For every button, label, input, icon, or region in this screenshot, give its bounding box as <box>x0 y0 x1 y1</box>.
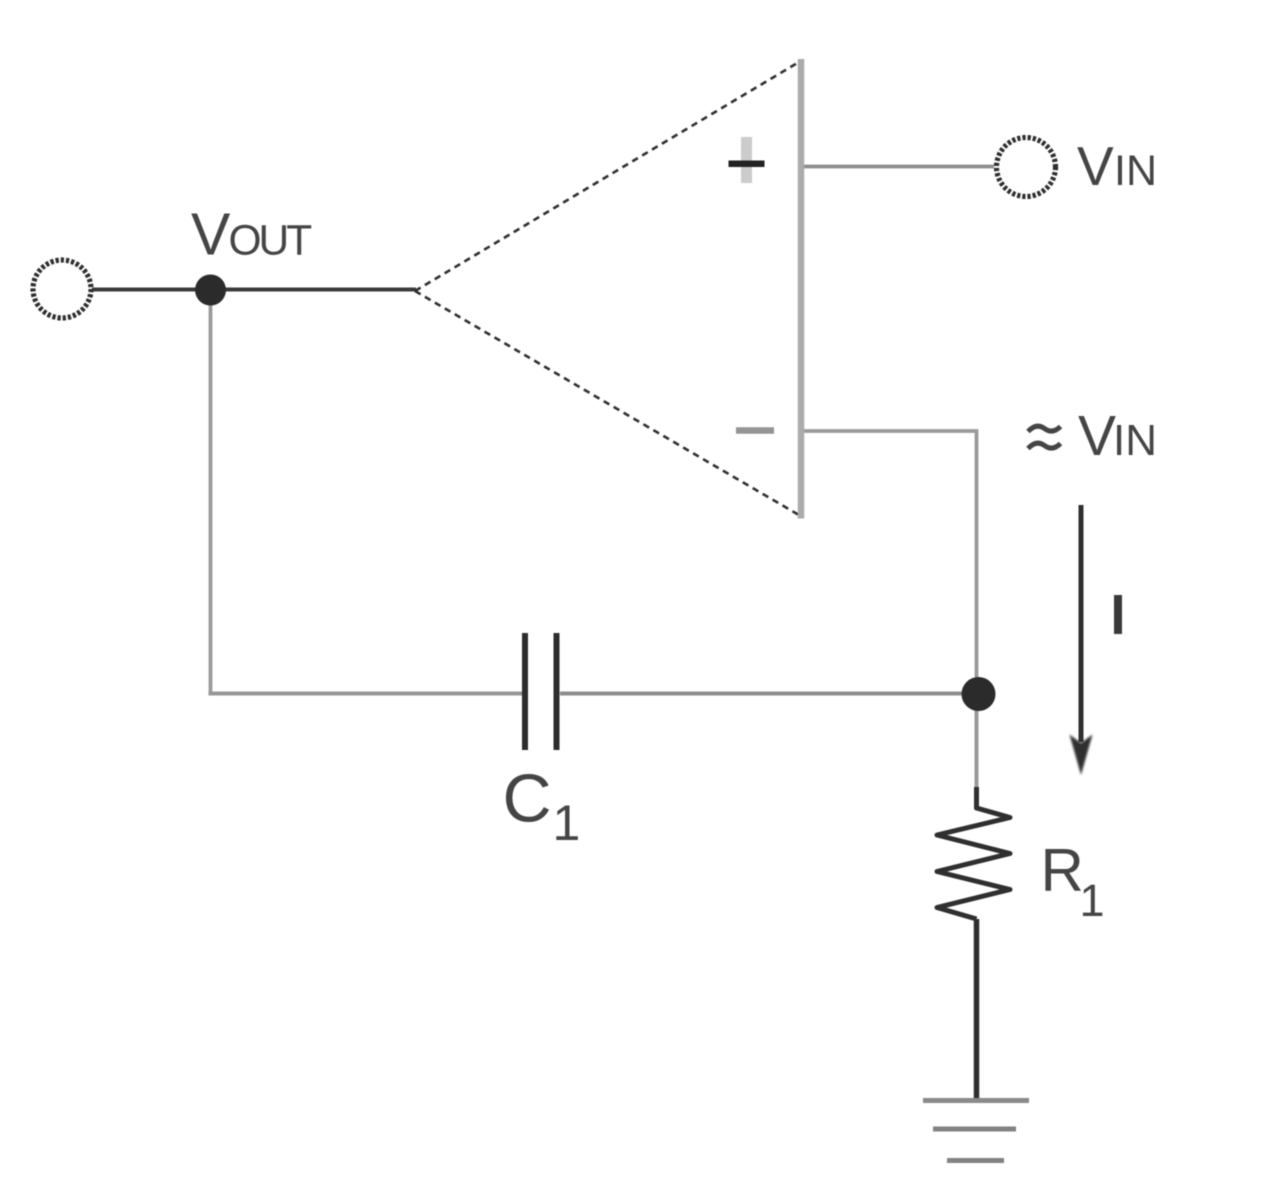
svg-text:1: 1 <box>553 795 581 851</box>
svg-text:V: V <box>1078 404 1116 468</box>
svg-text:1: 1 <box>1080 875 1105 926</box>
svg-text:IN: IN <box>1113 416 1157 465</box>
svg-text:V: V <box>191 202 231 268</box>
svg-text:C: C <box>503 761 552 837</box>
svg-text:V: V <box>1077 135 1114 197</box>
svg-text:R: R <box>1041 837 1084 904</box>
svg-text:OUT: OUT <box>229 218 312 265</box>
svg-text:IN: IN <box>1114 147 1157 195</box>
